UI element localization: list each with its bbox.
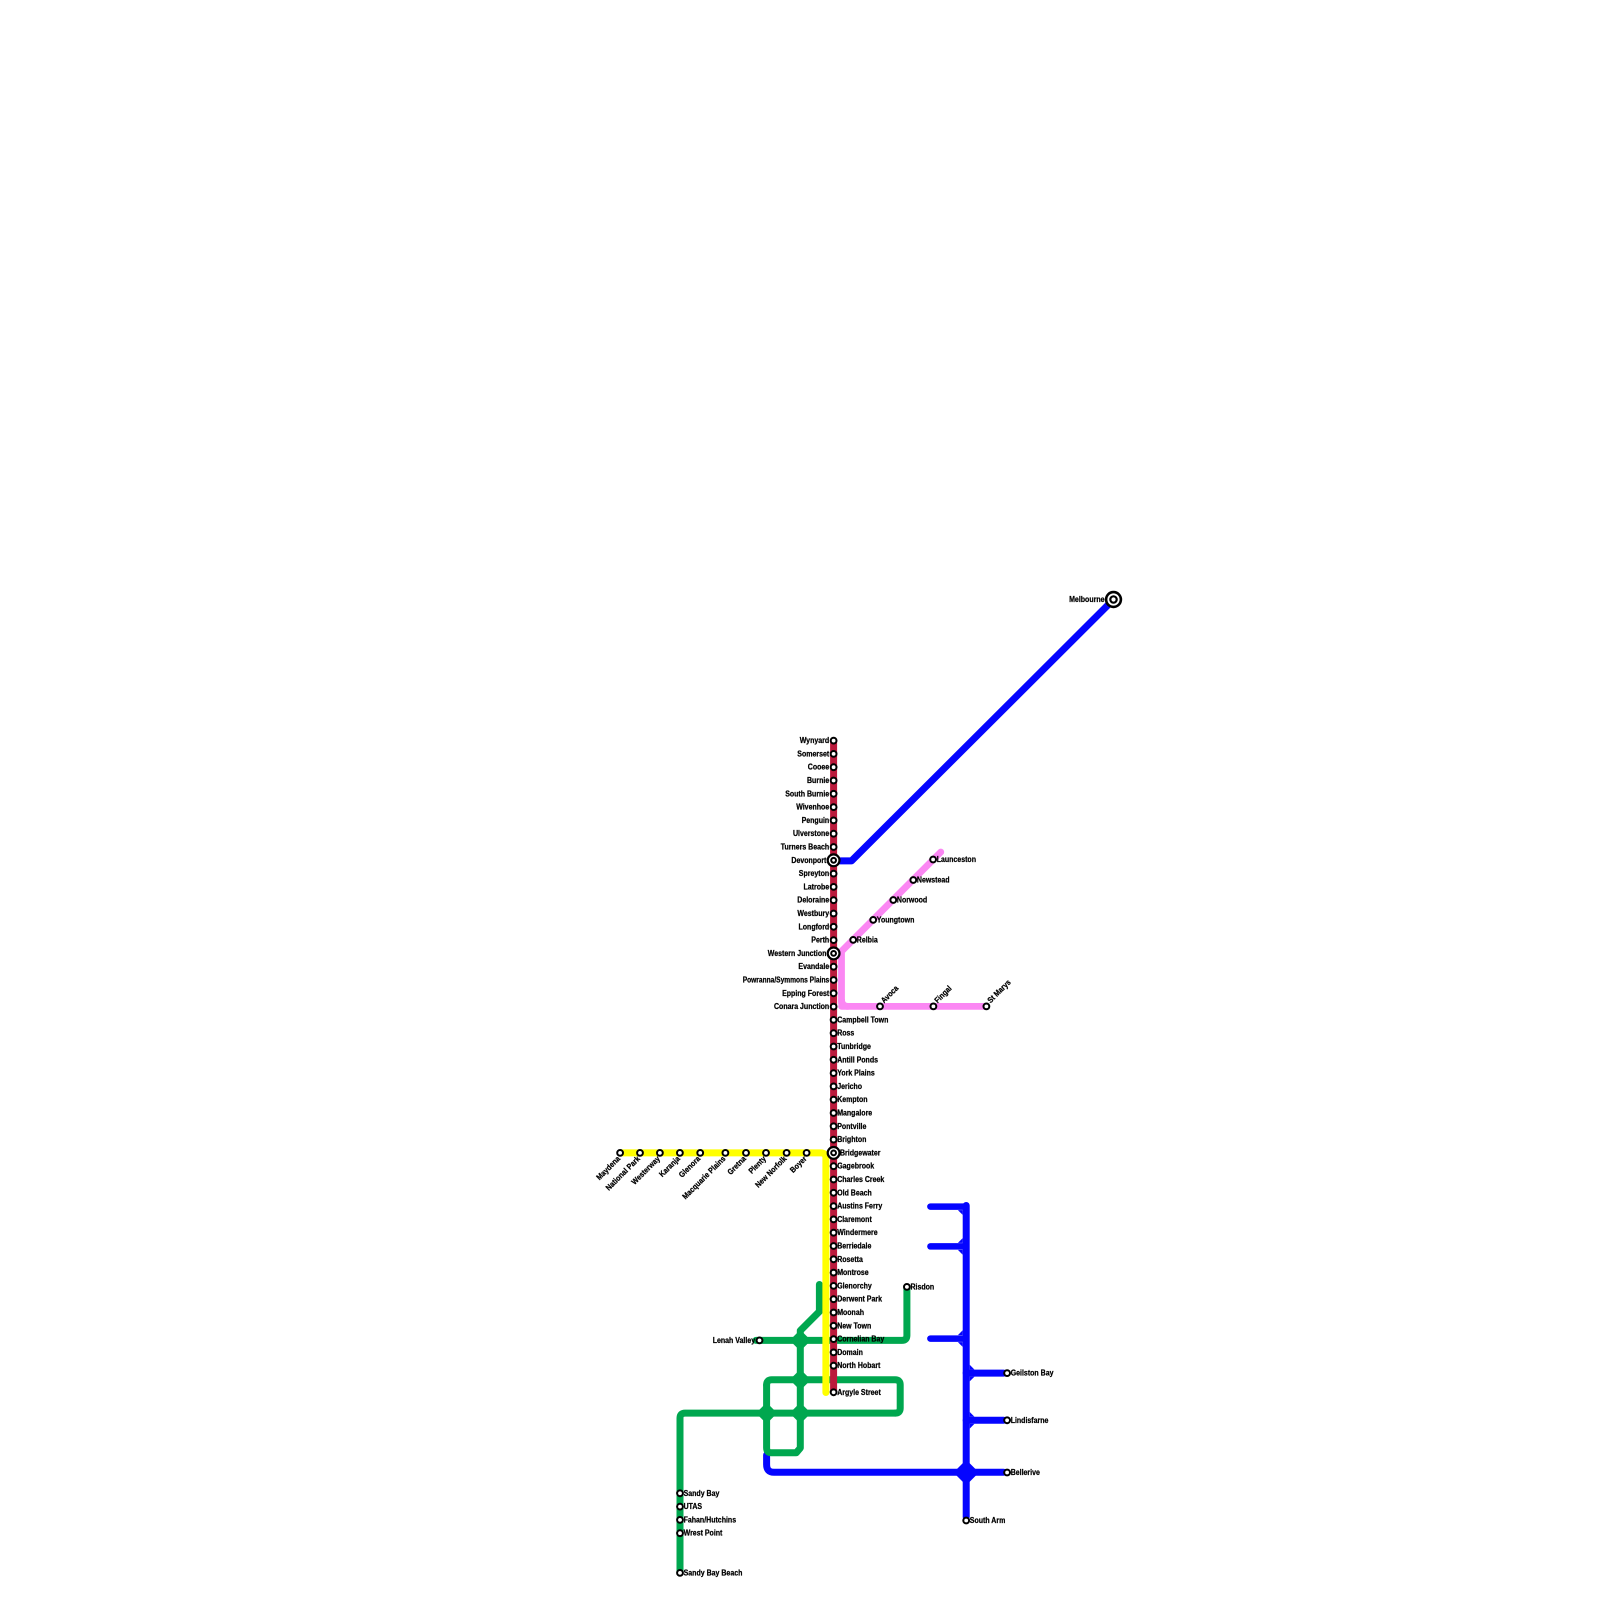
green junction bbox=[756, 1402, 777, 1423]
svg-text:Western Junction: Western Junction bbox=[768, 949, 827, 958]
blue junction Bellerive bbox=[953, 1460, 978, 1485]
station Sandy Bay bbox=[677, 1490, 683, 1496]
blue branch Geilston Bay bbox=[966, 1370, 1003, 1377]
svg-text:Bellerive: Bellerive bbox=[1011, 1468, 1041, 1477]
svg-text:Devonport: Devonport bbox=[791, 856, 826, 865]
pink Conara - St Marys line bbox=[842, 1003, 987, 1010]
svg-text:Fahan/Hutchins: Fahan/Hutchins bbox=[684, 1515, 737, 1524]
svg-text:South Arm: South Arm bbox=[970, 1516, 1006, 1525]
station Wrest Point bbox=[677, 1530, 683, 1536]
station Westbury bbox=[831, 911, 837, 917]
green New Town spur bbox=[800, 1285, 819, 1341]
station Sandy Bay Beach bbox=[677, 1570, 683, 1576]
green Lenah Valley - Risdon line bbox=[756, 1287, 907, 1340]
svg-text:South Burnie: South Burnie bbox=[785, 789, 829, 798]
station Longford bbox=[831, 924, 837, 930]
station Campbell Town bbox=[831, 1017, 837, 1023]
station Geilston Bay bbox=[1004, 1370, 1010, 1376]
station Norwood bbox=[890, 897, 896, 903]
svg-text:Antill Ponds: Antill Ponds bbox=[837, 1055, 878, 1064]
station Kempton bbox=[831, 1097, 837, 1103]
svg-text:North Hobart: North Hobart bbox=[837, 1361, 880, 1370]
svg-text:Macquarie Plains: Macquarie Plains bbox=[681, 1154, 728, 1201]
station Glenorchy bbox=[831, 1283, 837, 1289]
svg-text:Newstead: Newstead bbox=[917, 876, 950, 885]
station Latrobe bbox=[831, 884, 837, 890]
svg-text:Glenorchy: Glenorchy bbox=[837, 1281, 872, 1290]
station National Park bbox=[637, 1150, 643, 1156]
yellow Derwent Valley line bbox=[620, 1153, 826, 1393]
svg-text:Latrobe: Latrobe bbox=[804, 882, 830, 891]
green main vertical bbox=[767, 1340, 801, 1452]
svg-text:Campbell Town: Campbell Town bbox=[837, 1015, 888, 1024]
svg-text:Moonah: Moonah bbox=[837, 1308, 864, 1317]
green Sandy Bay line bbox=[680, 1413, 895, 1573]
station Penguin bbox=[831, 818, 837, 824]
station North Hobart bbox=[831, 1363, 837, 1369]
station Newstead bbox=[910, 877, 916, 883]
station Domain bbox=[831, 1350, 837, 1356]
svg-text:Launceston: Launceston bbox=[937, 855, 976, 864]
station Jericho bbox=[831, 1084, 837, 1090]
station Ross bbox=[831, 1030, 837, 1036]
svg-text:Risdon: Risdon bbox=[911, 1282, 935, 1291]
svg-text:St Marys: St Marys bbox=[986, 978, 1013, 1005]
blue junction flare bbox=[970, 1412, 975, 1417]
svg-text:Norwood: Norwood bbox=[897, 896, 927, 905]
station Claremont bbox=[831, 1217, 837, 1223]
blue junction flare bbox=[958, 1238, 963, 1243]
station Launceston bbox=[930, 857, 936, 863]
station Relbia bbox=[850, 937, 856, 943]
station Perth bbox=[831, 937, 837, 943]
svg-text:Fingal: Fingal bbox=[933, 984, 954, 1005]
svg-text:Charles Creek: Charles Creek bbox=[837, 1175, 885, 1184]
station Mangalore bbox=[831, 1110, 837, 1116]
station Conara Junction bbox=[831, 1004, 837, 1010]
station South Arm bbox=[963, 1518, 969, 1524]
blue stub Cornelian ferry bbox=[930, 1335, 966, 1342]
station Somerset bbox=[831, 751, 837, 757]
station St Marys bbox=[984, 1004, 990, 1010]
station Fingal bbox=[931, 1004, 937, 1010]
station Windermere bbox=[831, 1230, 837, 1236]
station Macquarie Plains bbox=[723, 1150, 729, 1156]
station Moonah bbox=[831, 1310, 837, 1316]
station Lindisfarne bbox=[1004, 1417, 1010, 1423]
station Epping Forest bbox=[831, 990, 837, 996]
svg-text:Burnie: Burnie bbox=[807, 776, 830, 785]
svg-text:Berriedale: Berriedale bbox=[837, 1242, 872, 1251]
station Karanja bbox=[677, 1150, 683, 1156]
svg-text:UTAS: UTAS bbox=[684, 1502, 703, 1511]
station UTAS bbox=[677, 1504, 683, 1510]
station Old Beach bbox=[831, 1190, 837, 1196]
station Plenty bbox=[763, 1150, 769, 1156]
svg-text:Gretna: Gretna bbox=[726, 1154, 749, 1177]
station New Town bbox=[831, 1323, 837, 1329]
station Western Junction bbox=[828, 948, 840, 960]
svg-text:Tunbridge: Tunbridge bbox=[837, 1042, 871, 1051]
station Ulverstone bbox=[831, 831, 837, 837]
svg-text:New Town: New Town bbox=[837, 1321, 871, 1330]
svg-text:Sandy Bay: Sandy Bay bbox=[684, 1489, 720, 1498]
svg-text:Argyle Street: Argyle Street bbox=[837, 1388, 881, 1397]
svg-text:Jericho: Jericho bbox=[837, 1082, 862, 1091]
svg-text:Wivenhoe: Wivenhoe bbox=[796, 803, 829, 812]
svg-text:Youngtown: Youngtown bbox=[877, 915, 915, 924]
station Avoca bbox=[877, 1004, 883, 1010]
svg-text:Lindisfarne: Lindisfarne bbox=[1011, 1416, 1049, 1425]
green junction bbox=[790, 1330, 811, 1351]
green city upper loop / Argyle loop bbox=[767, 1380, 901, 1413]
station Youngtown bbox=[870, 917, 876, 923]
svg-text:Austins Ferry: Austins Ferry bbox=[837, 1202, 883, 1211]
station Boyer bbox=[804, 1150, 810, 1156]
station York Plains bbox=[831, 1070, 837, 1076]
green junction bbox=[790, 1402, 811, 1423]
svg-text:Conara Junction: Conara Junction bbox=[774, 1002, 829, 1011]
station Fahan/Hutchins bbox=[677, 1517, 683, 1523]
svg-text:Epping Forest: Epping Forest bbox=[782, 989, 829, 998]
blue stub Risdon ferry bbox=[930, 1203, 966, 1210]
svg-text:Somerset: Somerset bbox=[797, 749, 829, 758]
station Maydena bbox=[617, 1150, 623, 1156]
station Rosetta bbox=[831, 1256, 837, 1262]
svg-text:Mangalore: Mangalore bbox=[837, 1109, 872, 1118]
pink corner at Conara bbox=[842, 999, 849, 1006]
station South Burnie bbox=[831, 791, 837, 797]
blue stub bbox=[930, 1243, 966, 1250]
station Montrose bbox=[831, 1270, 837, 1276]
pink Launceston - Western Junction - Conara line bbox=[842, 852, 941, 1003]
station Gagebrook bbox=[831, 1163, 837, 1169]
station Derwent Park bbox=[831, 1296, 837, 1302]
station Wivenhoe bbox=[831, 804, 837, 810]
station Argyle Street bbox=[831, 1389, 837, 1395]
svg-text:Pontville: Pontville bbox=[837, 1122, 867, 1131]
svg-text:Domain: Domain bbox=[837, 1348, 863, 1357]
station Turners Beach bbox=[831, 844, 837, 850]
svg-text:Deloraine: Deloraine bbox=[797, 896, 829, 905]
station Cooee bbox=[831, 764, 837, 770]
station Bellerive bbox=[1004, 1470, 1010, 1476]
svg-text:Melbourne: Melbourne bbox=[1069, 595, 1105, 604]
svg-text:Sandy Bay Beach: Sandy Bay Beach bbox=[684, 1568, 743, 1577]
svg-text:Turners Beach: Turners Beach bbox=[781, 843, 830, 852]
svg-text:Cooee: Cooee bbox=[808, 763, 830, 772]
blue eastern shore trunk bbox=[963, 1206, 970, 1518]
station New Norfolk bbox=[784, 1150, 790, 1156]
svg-text:Windermere: Windermere bbox=[837, 1228, 878, 1237]
svg-text:Lenah Valley: Lenah Valley bbox=[713, 1336, 756, 1345]
station Westerway bbox=[657, 1150, 663, 1156]
svg-text:Cornelian Bay: Cornelian Bay bbox=[837, 1335, 885, 1344]
svg-text:Kempton: Kempton bbox=[837, 1095, 867, 1104]
blue Melbourne line bbox=[834, 603, 1111, 861]
svg-text:Old Beach: Old Beach bbox=[837, 1188, 872, 1197]
svg-text:Boyer: Boyer bbox=[788, 1154, 808, 1174]
svg-text:Montrose: Montrose bbox=[837, 1268, 869, 1277]
svg-text:Perth: Perth bbox=[811, 936, 829, 945]
svg-text:Evandale: Evandale bbox=[798, 962, 829, 971]
station Spreyton bbox=[831, 871, 837, 877]
blue branch Lindisfarne bbox=[966, 1417, 1003, 1424]
red main line Wynyard - Argyle Street bbox=[830, 741, 837, 1393]
svg-text:Brighton: Brighton bbox=[837, 1135, 866, 1144]
station Wynyard bbox=[831, 738, 837, 744]
blue junction flare bbox=[958, 1330, 963, 1335]
svg-text:Westbury: Westbury bbox=[797, 909, 829, 918]
station Lenah Valley bbox=[757, 1338, 763, 1344]
station Cornelian Bay bbox=[831, 1336, 837, 1342]
station Berriedale bbox=[831, 1243, 837, 1249]
station Pontville bbox=[831, 1123, 837, 1129]
station Melbourne bbox=[1106, 592, 1121, 607]
station Deloraine bbox=[831, 897, 837, 903]
svg-text:Spreyton: Spreyton bbox=[799, 869, 829, 878]
blue junction flare bbox=[970, 1365, 975, 1370]
station Brighton bbox=[831, 1137, 837, 1143]
svg-text:Avoca: Avoca bbox=[879, 983, 900, 1004]
svg-text:Gagebrook: Gagebrook bbox=[837, 1162, 874, 1171]
svg-text:Relbia: Relbia bbox=[857, 935, 878, 944]
svg-text:Wynyard: Wynyard bbox=[800, 736, 830, 745]
station Risdon bbox=[904, 1284, 910, 1290]
station Gretna bbox=[743, 1150, 749, 1156]
station Tunbridge bbox=[831, 1044, 837, 1050]
svg-text:Penguin: Penguin bbox=[802, 816, 830, 825]
station Antill Ponds bbox=[831, 1057, 837, 1063]
svg-text:Derwent Park: Derwent Park bbox=[837, 1295, 882, 1304]
station Glenora bbox=[697, 1150, 703, 1156]
svg-text:Geilston Bay: Geilston Bay bbox=[1011, 1369, 1054, 1378]
svg-text:Claremont: Claremont bbox=[837, 1215, 872, 1224]
station Bridgewater bbox=[828, 1147, 840, 1159]
svg-text:Rosetta: Rosetta bbox=[837, 1255, 863, 1264]
station Charles Creek bbox=[831, 1177, 837, 1183]
station Burnie bbox=[831, 778, 837, 784]
svg-text:Ross: Ross bbox=[837, 1029, 855, 1038]
blue Bellerive line bbox=[767, 1455, 1004, 1472]
svg-text:Ulverstone: Ulverstone bbox=[793, 829, 830, 838]
station Evandale bbox=[831, 964, 837, 970]
svg-text:Powranna/Symmons Plains: Powranna/Symmons Plains bbox=[743, 976, 830, 985]
svg-text:Longford: Longford bbox=[799, 922, 830, 931]
station Devonport bbox=[828, 854, 840, 866]
svg-text:Wrest Point: Wrest Point bbox=[684, 1529, 723, 1538]
svg-text:Bridgewater: Bridgewater bbox=[840, 1148, 881, 1157]
station Austins Ferry bbox=[831, 1203, 837, 1209]
station Powranna/Symmons Plains bbox=[831, 977, 837, 983]
svg-text:York Plains: York Plains bbox=[837, 1069, 875, 1078]
blue junction flare bbox=[958, 1210, 963, 1215]
green junction bbox=[790, 1369, 811, 1390]
